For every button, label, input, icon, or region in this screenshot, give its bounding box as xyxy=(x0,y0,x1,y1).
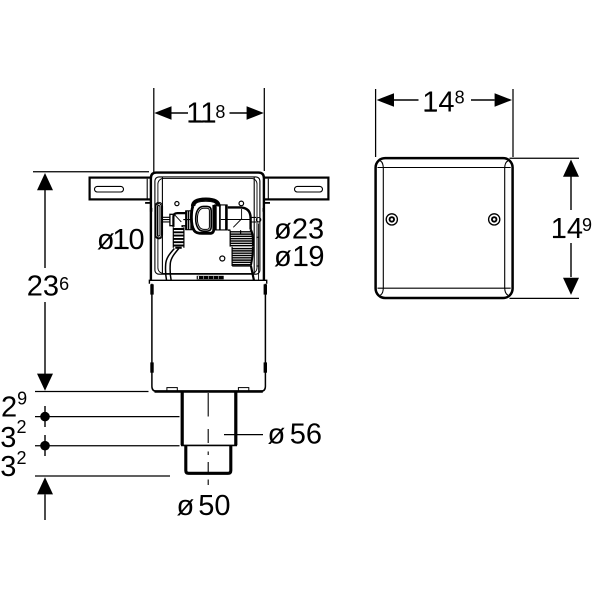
left barb tip xyxy=(175,247,181,249)
valve dome cap inner xyxy=(195,201,217,206)
grate bar xyxy=(197,276,224,280)
extension lines xyxy=(376,89,513,157)
outlet pipe d56 edges xyxy=(182,393,236,446)
box inner liner frame xyxy=(158,178,257,273)
lower box top lip xyxy=(149,280,266,284)
right corrugated hose lower block xyxy=(231,247,233,266)
svg-text:ø: ø xyxy=(268,419,286,451)
left nut xyxy=(185,211,187,230)
separator dot 2 xyxy=(40,441,50,451)
box side step right xyxy=(264,202,270,204)
lower box body xyxy=(152,284,266,392)
box side tick left xyxy=(150,208,152,212)
leader for d56 xyxy=(224,434,263,436)
upper box body xyxy=(151,173,264,281)
left elbow xyxy=(173,213,186,227)
wall channel boss outline xyxy=(155,202,163,239)
right elbow miter line xyxy=(233,219,242,228)
screw left xyxy=(386,214,397,225)
dim lines xyxy=(172,112,248,114)
left barbed hose frame xyxy=(173,227,184,248)
svg-text:ø: ø xyxy=(274,241,292,273)
plate inner vertical lines xyxy=(380,161,508,295)
left barbed hose ridges xyxy=(173,229,184,246)
valve inner D outer xyxy=(196,206,212,231)
centerline solid xyxy=(207,393,209,417)
hose end diagonal xyxy=(251,266,254,281)
lower box tick top-right xyxy=(264,284,267,294)
right stub circle xyxy=(256,218,260,222)
lower box bottom edge xyxy=(155,390,263,393)
left wing slot xyxy=(95,186,124,192)
dot stub 1 xyxy=(44,406,46,427)
bottom notch left xyxy=(167,388,177,391)
dot stub 2 xyxy=(44,435,46,456)
svg-text:19: 19 xyxy=(292,241,324,273)
box inner wall line left xyxy=(161,178,163,274)
arrow right xyxy=(495,93,512,107)
extension line left xyxy=(153,88,155,174)
outlet pipe d50 xyxy=(186,445,231,473)
valve dome cap outer xyxy=(193,199,219,206)
mounting rail right wing xyxy=(263,178,328,200)
right inlet stub lines xyxy=(251,217,256,222)
svg-text:10: 10 xyxy=(112,224,144,256)
tail line xyxy=(44,494,46,520)
right corrugated hose upper block xyxy=(229,231,231,247)
bottom notch right xyxy=(238,388,248,391)
leader line 2 xyxy=(35,416,180,418)
inlet pipe lines xyxy=(162,217,170,222)
right union nut xyxy=(214,205,217,230)
cover plate outer xyxy=(376,158,513,298)
drain hose curve right edge xyxy=(170,249,179,281)
dim lines xyxy=(394,99,495,101)
box side step left xyxy=(145,202,151,204)
valve inner D inner xyxy=(197,208,209,229)
lower box tick mid-left xyxy=(150,362,153,372)
conduit line xyxy=(258,224,260,281)
box inner frame xyxy=(155,177,260,274)
leader line box bottom xyxy=(35,391,149,393)
dim line upper xyxy=(570,177,572,211)
svg-text:50: 50 xyxy=(198,490,230,522)
right elbow inner vertical xyxy=(241,209,243,219)
inlet flare xyxy=(170,214,173,225)
arrow up bottom xyxy=(37,477,53,494)
extension lines xyxy=(510,158,580,298)
arrow up xyxy=(563,160,579,177)
arrow left xyxy=(377,93,394,107)
arrow down xyxy=(563,278,579,295)
plate inner horizontal lines xyxy=(378,168,511,289)
screw right xyxy=(489,214,500,225)
arrow up xyxy=(37,173,53,190)
valve body outline xyxy=(191,205,213,234)
extension line right xyxy=(263,88,265,171)
right wing inner edge line xyxy=(267,179,269,200)
leader line 4 xyxy=(35,475,170,477)
outlet axis line through nut and elbow xyxy=(221,219,251,221)
wall channel stadium xyxy=(156,204,162,239)
lower box tick mid-right xyxy=(264,362,267,372)
screw hole top right xyxy=(239,201,244,206)
drain hole lower middle xyxy=(220,256,225,261)
svg-text:56: 56 xyxy=(290,419,322,451)
right wing slot xyxy=(295,186,323,192)
outlet shoulder xyxy=(181,444,237,446)
box inner wall line right xyxy=(253,178,255,274)
svg-text:ø: ø xyxy=(177,490,195,522)
right elbow xyxy=(228,207,251,229)
arrow down xyxy=(37,374,53,391)
left elbow miter line xyxy=(175,215,182,222)
box side tick right xyxy=(263,208,265,212)
arrow right xyxy=(247,106,264,120)
centerline dashes xyxy=(207,429,209,485)
dim line lower xyxy=(44,302,46,374)
mounting rail left wing xyxy=(90,178,152,200)
lower box tick top-left xyxy=(150,284,153,294)
right elbow tick xyxy=(240,230,242,233)
screw hole top left xyxy=(175,202,179,206)
leader line 3 xyxy=(35,445,180,447)
left wing inner edge line xyxy=(146,179,148,200)
dim line upper xyxy=(44,190,46,268)
conduit ticks xyxy=(256,237,259,266)
top extension line xyxy=(33,171,149,173)
wall channel inner xyxy=(157,206,160,237)
arrow left xyxy=(154,106,171,120)
drain hose curve left edge xyxy=(166,249,175,281)
separator dot 1 xyxy=(40,412,50,422)
dim line lower xyxy=(570,243,572,277)
